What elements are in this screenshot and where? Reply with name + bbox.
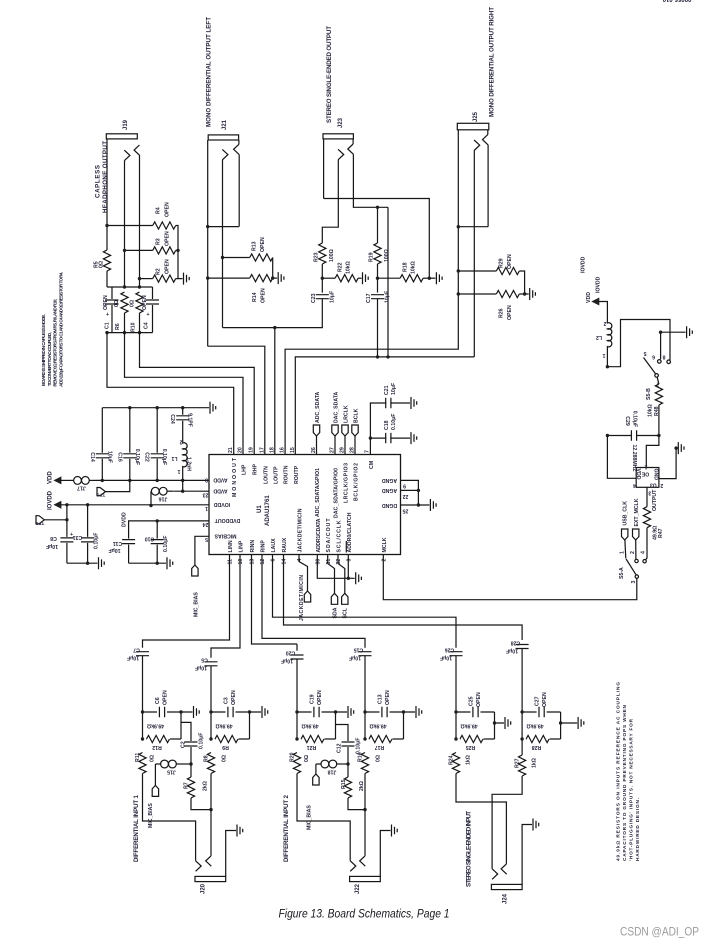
svg-text:10μF: 10μF: [46, 543, 58, 549]
svg-text:C11: C11: [113, 540, 122, 546]
svg-text:R26: R26: [499, 308, 505, 318]
svg-text:C10: C10: [145, 536, 155, 542]
svg-text:OPEN: OPEN: [142, 295, 148, 310]
svg-text:1kΩ: 1kΩ: [466, 755, 472, 765]
svg-text:MONOOUT: MONOOUT: [232, 457, 238, 497]
svg-text:4: 4: [297, 559, 303, 562]
svg-text:0.10μF: 0.10μF: [163, 536, 169, 552]
svg-text:OUTPUT: OUTPUT: [652, 489, 658, 511]
connector J22 (differential input 2 jack): [297, 774, 391, 882]
connector J23 (stereo single-ended output jack): [322, 134, 388, 357]
svg-text:J22: J22: [355, 883, 361, 894]
wire AGND/DGND to ground: [401, 480, 430, 505]
svg-text:AVDD: AVDD: [213, 487, 228, 493]
svg-text:R20: R20: [290, 752, 296, 762]
svg-text:IOVDD: IOVDD: [214, 501, 231, 507]
resistor R15 2kohm: [341, 764, 365, 810]
svg-text:C7: C7: [133, 647, 140, 653]
wire ROUTP net (pin 15 to J25 ring and C17/J23): [295, 227, 474, 455]
svg-text:49.9kΩ RESISTORS ON INPUTS REF: 49.9kΩ RESISTORS ON INPUTS REFERENCE AC …: [616, 682, 621, 861]
svg-text:C26: C26: [445, 647, 455, 653]
wire RINP staircase: [262, 555, 365, 648]
ground (C27): [578, 717, 584, 729]
wire RAUX staircase: [284, 555, 523, 641]
svg-text:RINP: RINP: [261, 540, 267, 553]
svg-text:C27: C27: [535, 696, 541, 706]
svg-text:IOVDD: IOVDD: [48, 490, 54, 510]
net flag MIC_BIAS (input 1): [148, 785, 159, 828]
svg-text:CM: CM: [369, 461, 375, 469]
svg-text:OPEN: OPEN: [165, 259, 171, 274]
svg-text:1: 1: [602, 352, 605, 358]
svg-text:OE: OE: [641, 471, 649, 477]
svg-text:10μF: 10μF: [349, 655, 361, 661]
svg-text:J24: J24: [503, 893, 509, 904]
svg-text:C18: C18: [384, 420, 390, 430]
svg-text:ADD 220μF CAPACITORS TO C1 AND: ADD 220μF CAPACITORS TO C1 AND C4 AND 0Ω…: [58, 272, 63, 387]
svg-text:J23: J23: [338, 117, 344, 128]
svg-text:+: +: [106, 312, 109, 318]
jumper J18: [316, 760, 348, 774]
svg-text:R23: R23: [314, 252, 320, 262]
svg-text:10μF: 10μF: [440, 655, 452, 661]
net flag BCLK (pin 28): [352, 408, 360, 454]
wire RHP route to pin 19: [140, 333, 255, 455]
ground (R2/R3/R4): [184, 273, 190, 285]
svg-text:R8: R8: [204, 755, 210, 762]
connector J24 (stereo single-ended input jack): [456, 774, 532, 890]
svg-text:S5-B: S5-B: [646, 388, 652, 400]
capacitor C16 0.10uF: [116, 408, 140, 481]
svg-text:C5: C5: [201, 657, 208, 663]
svg-text:C3: C3: [224, 697, 230, 704]
svg-text:13: 13: [250, 559, 256, 565]
svg-text:21: 21: [228, 447, 234, 453]
svg-text:49.9kΩ: 49.9kΩ: [460, 723, 477, 729]
resistor R22 10kohm: [322, 261, 361, 282]
svg-text:MONO DIFFERENTIAL OUTPUT LEFT: MONO DIFFERENTIAL OUTPUT LEFT: [206, 17, 213, 127]
svg-text:TP5: TP5: [96, 493, 105, 498]
svg-text:R2: R2: [156, 268, 162, 275]
svg-text:C31: C31: [73, 534, 83, 540]
svg-text:VDD: VDD: [586, 292, 592, 303]
svg-text:IOVDD: IOVDD: [596, 276, 602, 293]
svg-text:LOUTN: LOUTN: [263, 466, 269, 484]
svg-text:C2: C2: [181, 741, 187, 748]
svg-text:8: 8: [662, 354, 665, 360]
svg-text:MIC_BIAS: MIC_BIAS: [194, 592, 200, 617]
capacitor C2 0.10uF: [181, 722, 205, 764]
wire ADDR pins to ground: [317, 555, 354, 579]
svg-text:DGND: DGND: [382, 502, 398, 508]
connector J20 (differential input 1 jack): [143, 774, 237, 882]
wire L2 to S5-B pin5: [607, 320, 670, 367]
svg-text:LRCLK: LRCLK: [344, 405, 350, 423]
ground (top bypass rail): [102, 407, 209, 409]
wire U3 GND pin2 to ground: [659, 448, 676, 479]
svg-text:10μF: 10μF: [330, 291, 336, 303]
svg-text:OPEN: OPEN: [507, 254, 513, 269]
svg-text:OPEN: OPEN: [385, 690, 391, 705]
svg-text:BCLK/GPIO2: BCLK/GPIO2: [354, 463, 360, 501]
svg-text:R25: R25: [466, 744, 476, 750]
resistor R16 0ohm: [358, 752, 382, 773]
svg-text:STEREO SINGLE-ENDED OUTPUT: STEREO SINGLE-ENDED OUTPUT: [326, 26, 333, 123]
svg-text:23: 23: [203, 492, 209, 498]
svg-text:3: 3: [347, 559, 353, 562]
svg-text:C22: C22: [144, 452, 150, 462]
svg-text:0Ω: 0Ω: [114, 300, 120, 307]
capacitor C3 (OPEN) with R9 49.9kohm loop: [211, 690, 261, 750]
note: 49.9k input resistors: [616, 682, 641, 861]
wire LOUTP route to pin 18: [223, 328, 275, 455]
svg-text:C19: C19: [310, 694, 316, 704]
svg-text:OPEN: OPEN: [476, 692, 482, 707]
svg-text:AGND: AGND: [382, 477, 398, 483]
svg-text:10kΩ: 10kΩ: [648, 404, 654, 417]
svg-text:+: +: [70, 532, 73, 538]
ground (S5-B): [661, 332, 686, 359]
svg-text:0Ω: 0Ω: [130, 300, 136, 307]
inductor L2: [596, 320, 612, 367]
svg-text:HARDWIRED DESIGN.: HARDWIRED DESIGN.: [635, 798, 640, 861]
svg-text:LHP: LHP: [242, 464, 248, 475]
capacitor C23 10uF: [275, 291, 336, 328]
svg-text:USB_CLK: USB_CLK: [623, 501, 629, 526]
resistor R5 0ohm: [94, 250, 111, 271]
net flag LRCLK (pin 29): [342, 405, 350, 454]
svg-text:HEADPHONE OUTPUT: HEADPHONE OUTPUT: [102, 141, 109, 213]
svg-text:2: 2: [603, 320, 606, 326]
svg-text:R21: R21: [307, 744, 317, 750]
svg-text:R47: R47: [658, 528, 664, 538]
svg-text:C4: C4: [144, 322, 150, 329]
resistor R27 1kohm: [515, 739, 538, 776]
svg-text:ADAU1761: ADAU1761: [265, 495, 271, 526]
svg-text:10kΩ: 10kΩ: [411, 261, 417, 274]
svg-text:10: 10: [238, 559, 244, 565]
wire LAUX staircase: [273, 555, 457, 648]
svg-text:100Ω: 100Ω: [384, 249, 390, 262]
wire RINN staircase: [252, 555, 298, 651]
net flag DAC_SDATA (pin 27): [332, 392, 340, 455]
node R4/sleeve: [105, 224, 108, 227]
svg-text:1kΩ: 1kΩ: [532, 758, 538, 768]
svg-text:2kΩ: 2kΩ: [359, 781, 365, 791]
svg-text:49.9kΩ: 49.9kΩ: [147, 723, 164, 729]
svg-text:8: 8: [205, 477, 208, 483]
svg-text:22: 22: [403, 493, 409, 499]
svg-text:C12: C12: [336, 743, 342, 753]
svg-text:RAUX: RAUX: [282, 537, 288, 552]
svg-text:R15: R15: [341, 779, 347, 789]
ground (ADDR0/ADDR1): [356, 572, 362, 584]
svg-text:JACKDET/MICIN: JACKDET/MICIN: [299, 575, 305, 621]
ground (C10/C11): [129, 562, 166, 564]
svg-text:49.9kΩ: 49.9kΩ: [301, 723, 318, 729]
resistor R24 1kohm: [449, 753, 472, 774]
svg-text:2: 2: [630, 551, 636, 554]
connector J19 (capless headphone output jack): [106, 134, 139, 287]
svg-text:R48: R48: [654, 406, 660, 416]
svg-text:DIFFERENTIAL INPUT 2: DIFFERENTIAL INPUT 2: [283, 794, 290, 862]
capacitor C22 0.10uF: [144, 408, 168, 481]
oscillator U3 12.288MHZ: [631, 445, 663, 496]
svg-text:LINN: LINN: [228, 540, 234, 552]
svg-text:0Ω: 0Ω: [222, 755, 228, 762]
capacitor C4 (OPEN): [142, 287, 159, 333]
svg-text:0.10μF: 0.10μF: [632, 411, 638, 427]
svg-text:17: 17: [259, 447, 265, 453]
svg-text:R14: R14: [252, 292, 258, 302]
svg-text:R9: R9: [222, 744, 229, 750]
connector J21 (mono differential output left jack): [206, 135, 239, 346]
svg-text:5: 5: [205, 536, 208, 542]
test point TP5: [96, 480, 129, 497]
ground (C21): [411, 397, 417, 409]
svg-text:U1: U1: [257, 505, 263, 513]
capacitor C18 0.10uF: [384, 414, 410, 444]
svg-text:R29: R29: [499, 258, 505, 268]
svg-text:RHP: RHP: [253, 464, 259, 475]
svg-text:L1: L1: [171, 455, 177, 461]
ground (R26): [530, 288, 536, 300]
resistor R18 10kohm: [378, 261, 436, 282]
svg-text:VDD: VDD: [48, 471, 54, 484]
svg-text:REMOVE 0Ω RESISTORS FROM R5, R: REMOVE 0Ω RESISTORS FROM R5, R6, AND R10…: [53, 298, 58, 386]
svg-text:OPEN: OPEN: [165, 202, 171, 217]
svg-text:C25: C25: [469, 696, 475, 706]
svg-text:10μF: 10μF: [127, 655, 139, 661]
connector J25 (mono differential output right jack): [457, 123, 489, 226]
svg-text:MCLK: MCLK: [382, 537, 388, 552]
svg-text:J21: J21: [222, 119, 228, 130]
wire LHP route to pin 20: [125, 333, 244, 455]
svg-text:49.9kΩ: 49.9kΩ: [369, 723, 386, 729]
svg-text:18: 18: [269, 447, 275, 453]
svg-text:20: 20: [238, 447, 244, 453]
svg-text:C23: C23: [311, 293, 317, 303]
svg-text:1.2nH: 1.2nH: [186, 457, 192, 471]
net flag ADC_SDATA (pin 26): [313, 392, 321, 455]
ground (R18): [436, 272, 442, 284]
power flag VDD: [48, 471, 74, 485]
svg-text:0.10μF: 0.10μF: [199, 733, 205, 749]
svg-text:ADC_SDATA: ADC_SDATA: [315, 392, 321, 423]
svg-text:STEREO SINGLE-ENDED INPUT: STEREO SINGLE-ENDED INPUT: [466, 811, 473, 887]
svg-text:OPEN: OPEN: [317, 690, 323, 705]
svg-text:10μF: 10μF: [108, 547, 120, 553]
svg-text:C29: C29: [624, 416, 630, 426]
wire LOUTN route to pin 17: [208, 346, 265, 454]
svg-text:0.10μF: 0.10μF: [94, 533, 100, 549]
ground (C19): [348, 706, 354, 718]
svg-text:R6: R6: [115, 323, 121, 330]
svg-text:R13: R13: [252, 241, 258, 251]
capacitor C28 10uF: [506, 640, 529, 713]
svg-text:LOUTP: LOUTP: [273, 466, 279, 484]
ground (J22 sleeve): [392, 825, 398, 837]
resistor R7 2kohm: [184, 764, 212, 810]
svg-text:J19: J19: [123, 119, 129, 130]
svg-text:49.9kΩ: 49.9kΩ: [526, 723, 543, 729]
resistor R10 0ohm: [130, 292, 144, 333]
svg-text:GND: GND: [652, 469, 658, 481]
svg-text:C21: C21: [384, 385, 390, 395]
capacitor C31 0.10uF: [73, 505, 100, 563]
net flag JACKDET/MICIN (pin 4): [299, 555, 311, 622]
svg-text:CAPLESS: CAPLESS: [95, 165, 102, 198]
resistor R2: [140, 250, 183, 282]
svg-text:19: 19: [249, 447, 255, 453]
ground (C3): [262, 706, 268, 718]
capacitor C25 (OPEN) with R25 49.9kohm loop: [456, 692, 504, 750]
svg-text:OPEN: OPEN: [260, 237, 266, 252]
svg-text:MONO DIFFERENTIAL OUTPUT RIGHT: MONO DIFFERENTIAL OUTPUT RIGHT: [489, 7, 496, 117]
capacitor C1 (OPEN): [103, 287, 119, 333]
resistor R4: [107, 202, 178, 250]
resistor R47 49.9ohm (U3 output pin3): [643, 487, 664, 560]
capacitor C13 (OPEN) with R17 49.9kohm loop: [365, 690, 415, 750]
svg-text:100Ω: 100Ω: [329, 249, 335, 262]
svg-text:OPEN: OPEN: [507, 305, 513, 320]
svg-text:AGND: AGND: [382, 487, 398, 493]
svg-text:OPEN: OPEN: [261, 288, 267, 303]
svg-text:C28: C28: [511, 640, 521, 646]
svg-text:0Ω: 0Ω: [376, 755, 382, 762]
ground (J24 sleeve): [533, 819, 539, 831]
jumper J17: [74, 477, 209, 491]
inductor L1 1.2nH: [171, 439, 191, 481]
svg-text:J18: J18: [328, 769, 337, 775]
svg-text:0.10μF: 0.10μF: [134, 449, 140, 465]
svg-text:EXT_MCLK: EXT_MCLK: [634, 498, 640, 526]
svg-text:SDA/COUT: SDA/COUT: [326, 518, 332, 553]
wire J23 sleeve to R18 ground: [324, 199, 430, 279]
svg-text:11: 11: [228, 559, 234, 565]
svg-text:Figure 13. Board Schematics, P: Figure 13. Board Schematics, Page 1: [279, 909, 450, 921]
svg-text:32: 32: [336, 559, 342, 565]
resistor R23 100ohm: [314, 243, 336, 293]
jumper J15: [155, 760, 191, 785]
svg-text:R7: R7: [184, 782, 190, 789]
svg-text:DVDD: DVDD: [122, 512, 128, 527]
resistor R14 (OPEN): [208, 275, 278, 304]
svg-text:OPEN: OPEN: [231, 690, 237, 705]
svg-text:9: 9: [403, 483, 406, 489]
svg-text:0Ω: 0Ω: [304, 755, 310, 762]
svg-text:R16: R16: [358, 752, 364, 762]
svg-text:C8: C8: [50, 535, 57, 541]
wire MCLK (S5-A pole to pin 2): [383, 555, 637, 600]
ground (AGND/DGND): [430, 499, 436, 511]
svg-text:9.1PF: 9.1PF: [187, 413, 193, 427]
svg-text:IOVDD: IOVDD: [581, 256, 587, 273]
svg-text:RINN: RINN: [250, 540, 256, 553]
svg-text:6: 6: [271, 559, 277, 562]
capacitor C10 0.10uF: [145, 521, 169, 563]
svg-text:C6: C6: [155, 697, 161, 704]
resistor R3: [125, 231, 179, 254]
wire MONOOUT route to pin 21: [107, 333, 234, 455]
net flag EXT_MCLK: [633, 498, 640, 559]
svg-text:R22: R22: [338, 262, 344, 272]
op-amp U1 ADAU1761 (codec IC body): [209, 455, 401, 555]
svg-text:5: 5: [643, 350, 646, 356]
svg-text:J15: J15: [167, 769, 176, 775]
net flag SCL (pin 32): [338, 555, 349, 619]
svg-text:C17: C17: [366, 293, 372, 303]
svg-text:J25: J25: [473, 111, 479, 122]
svg-text:CAPACITORS TO GROUND PREVENTIN: CAPACITORS TO GROUND PREVENTING POPS WHE…: [622, 704, 627, 861]
svg-text:15: 15: [290, 447, 296, 453]
note: capless mode instructions: [41, 272, 63, 387]
svg-text:30: 30: [316, 559, 322, 565]
svg-text:C14: C14: [89, 452, 95, 462]
ground (C8/C31): [67, 562, 98, 564]
power flag IOVDD: [48, 490, 210, 510]
capacitor C6 (OPEN) with R12 49.9kohm loop: [143, 690, 193, 750]
capacitor C27 (OPEN) with R28 49.9kohm loop: [522, 692, 577, 750]
svg-text:R10: R10: [131, 322, 137, 332]
svg-text:LAUX: LAUX: [271, 538, 277, 553]
wire LINN staircase: [143, 555, 230, 648]
jumper J16: [149, 480, 209, 507]
svg-text:12: 12: [260, 559, 266, 565]
svg-text:10μF: 10μF: [506, 648, 518, 654]
svg-text:C16: C16: [116, 452, 122, 462]
net flag MIC_BIAS (input 2): [307, 774, 320, 830]
capacitor C17 10uF: [366, 291, 391, 357]
svg-text:DIFFERENTIAL INPUT 1: DIFFERENTIAL INPUT 1: [133, 794, 140, 862]
capacitor C12 0.10uF: [336, 725, 362, 765]
svg-text:ADC_SDATA/GPIO1: ADC_SDATA/GPIO1: [315, 468, 321, 517]
switch S5-A: [619, 551, 646, 584]
svg-text:3: 3: [648, 490, 651, 496]
svg-text:0.10μF: 0.10μF: [161, 449, 167, 465]
svg-text:LINP: LINP: [239, 540, 245, 552]
svg-text:1: 1: [620, 551, 626, 554]
svg-text:MIC_BIAS: MIC_BIAS: [148, 803, 154, 828]
svg-text:BCLK: BCLK: [354, 408, 360, 423]
svg-text:ROUTP: ROUTP: [294, 465, 300, 484]
svg-text:DAC_SDATA: DAC_SDATA: [334, 392, 340, 423]
svg-text:4: 4: [633, 482, 636, 488]
svg-text:J17: J17: [77, 485, 86, 491]
resistor R6 0ohm: [114, 292, 128, 333]
svg-text:4: 4: [641, 551, 647, 554]
ground (C13): [416, 706, 422, 718]
svg-text:R24: R24: [449, 755, 455, 765]
ground (R14): [278, 272, 284, 284]
svg-text:16: 16: [280, 447, 286, 453]
resistor R29 (OPEN): [458, 254, 524, 294]
svg-text:OPEN: OPEN: [165, 231, 171, 246]
svg-text:C24: C24: [169, 414, 175, 424]
svg-text:C1: C1: [105, 322, 111, 329]
net flag USB_CLK: [622, 501, 629, 559]
svg-text:0Ω: 0Ω: [150, 755, 156, 762]
resistor R26 (OPEN): [458, 290, 528, 320]
power flag IOVDD (clock supply): [581, 256, 608, 320]
capacitor C19 (OPEN) with R21 49.9kohm loop: [297, 690, 347, 750]
svg-text:LRCLK/GPIO3: LRCLK/GPIO3: [344, 463, 350, 503]
svg-text:J16: J16: [159, 496, 168, 502]
svg-text:7: 7: [365, 450, 371, 453]
wire U3 VDD pin4: [607, 436, 636, 479]
svg-text:L2: L2: [596, 334, 602, 340]
capacitor C7 10uF: [127, 647, 149, 713]
